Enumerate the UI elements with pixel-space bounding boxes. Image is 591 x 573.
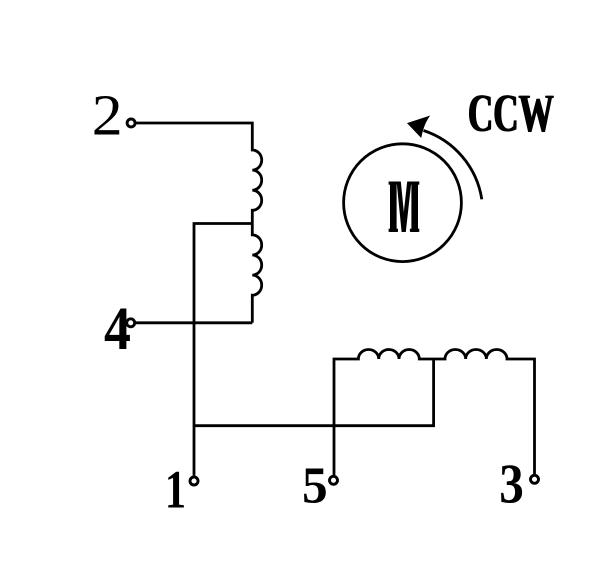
svg-text:1: 1 [165,461,186,520]
svg-text:4: 4 [104,294,131,363]
svg-text:3: 3 [499,453,524,515]
svg-text:2: 2 [92,82,123,147]
svg-text:CCW: CCW [469,82,555,143]
svg-text:5: 5 [302,457,328,514]
